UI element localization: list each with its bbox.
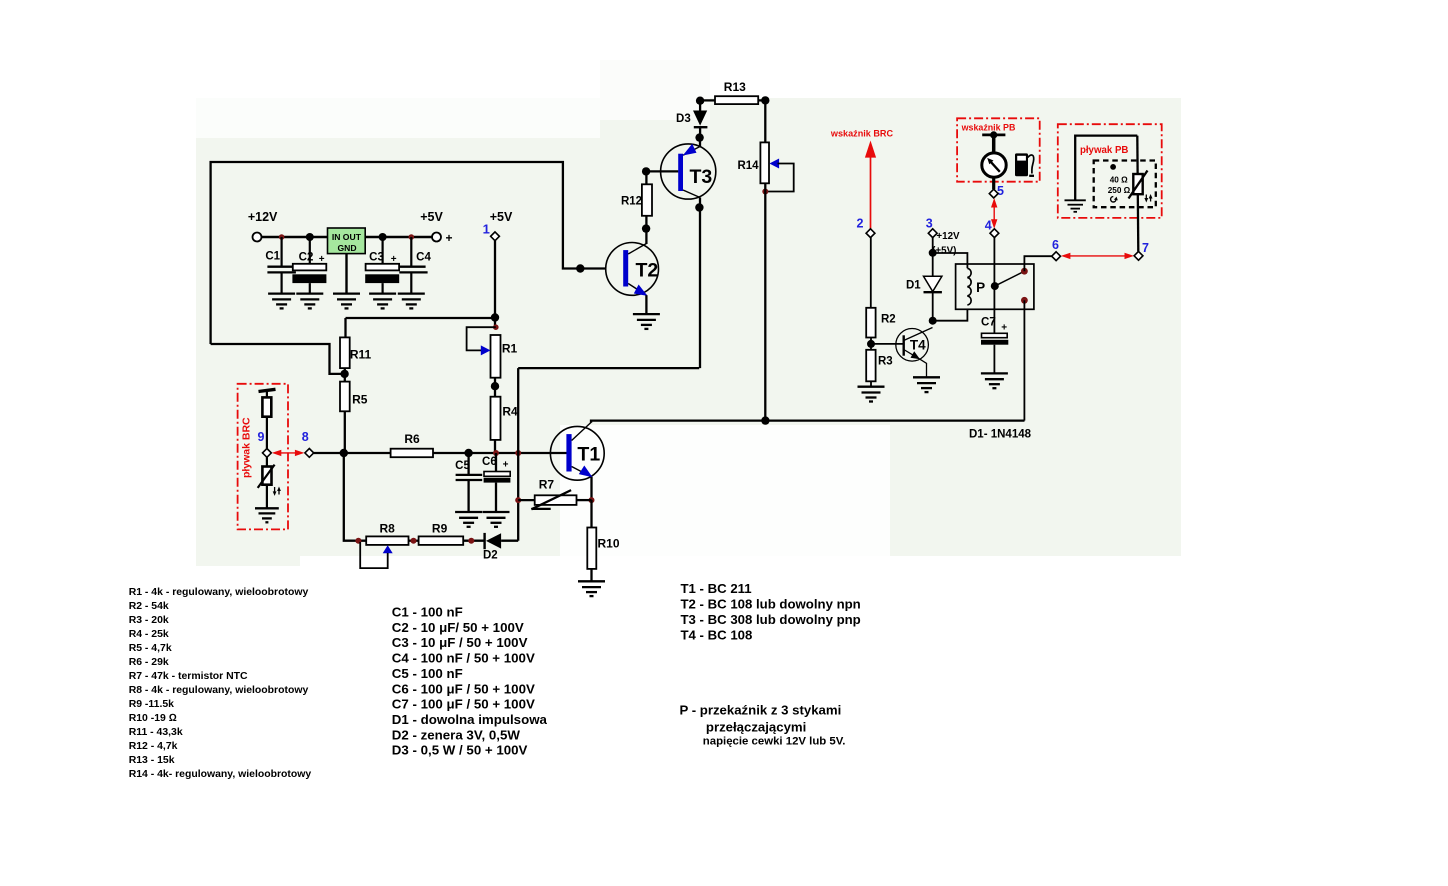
capacitor C5 bbox=[455, 453, 482, 512]
wire coil bottom return bbox=[933, 309, 968, 320]
red link arrow node5-node4 bbox=[991, 198, 997, 229]
node 8 diamond bbox=[305, 449, 314, 458]
svg-text:R5 - 4,7k: R5 - 4,7k bbox=[129, 643, 172, 654]
gauge top bar bbox=[982, 131, 1005, 152]
wire NC contact to node 6 bbox=[1024, 256, 1051, 271]
wire node3 down to D1 bbox=[932, 238, 934, 277]
svg-text:R11: R11 bbox=[350, 348, 372, 362]
sender rotation mark bbox=[1111, 197, 1116, 202]
wire R3 to ground bbox=[870, 381, 872, 386]
wire frame from regulator output loop to T2 base bbox=[211, 162, 606, 344]
wire R1 to R4 bbox=[494, 378, 496, 397]
svg-text:R7: R7 bbox=[539, 478, 555, 492]
svg-text:C1 - 100 nF: C1 - 100 nF bbox=[392, 605, 463, 620]
R1 wiper loop bbox=[467, 327, 496, 350]
svg-text:D2: D2 bbox=[483, 550, 498, 562]
wire to relay coil top bbox=[933, 253, 968, 268]
transistor T4 bbox=[896, 328, 933, 362]
junction (red) R9/D2 bbox=[468, 538, 474, 544]
svg-text:T2: T2 bbox=[636, 260, 659, 282]
junction R2/R3 bbox=[867, 340, 875, 348]
BRC sender level arrows bbox=[273, 487, 281, 496]
ground under C4 bbox=[398, 294, 425, 309]
svg-text:D3 - 0,5 W / 50 + 100V: D3 - 0,5 W / 50 + 100V bbox=[392, 743, 528, 758]
node 6 diamond bbox=[1052, 252, 1061, 261]
svg-text:R3: R3 bbox=[878, 356, 893, 368]
svg-text:C4: C4 bbox=[416, 252, 431, 264]
resistor R2 bbox=[866, 308, 895, 338]
junction T3 collector bbox=[695, 203, 703, 211]
junction (red) R1 top bbox=[493, 324, 499, 330]
svg-text:+5V: +5V bbox=[420, 210, 443, 224]
node 5 diamond bbox=[989, 189, 998, 198]
svg-text:4: 4 bbox=[985, 219, 992, 233]
resistor R5 bbox=[340, 382, 368, 412]
wire R11 to R5 bbox=[344, 368, 346, 382]
node 3 diamond bbox=[928, 229, 937, 238]
wire frame bottom segment to R11-R5 junction bbox=[211, 344, 342, 374]
capacitor C4 bbox=[399, 237, 431, 293]
wire R12 top to T3 base junction bbox=[645, 171, 647, 184]
ground under C7 bbox=[981, 373, 1008, 388]
svg-text:+12V: +12V bbox=[936, 231, 960, 242]
capacitor C6 (electrolytic) bbox=[482, 453, 510, 512]
svg-text:wskaźnik BRC: wskaźnik BRC bbox=[830, 129, 894, 139]
svg-text:R10: R10 bbox=[597, 537, 619, 551]
svg-text:przełączającymi: przełączającymi bbox=[706, 720, 806, 735]
R8 wiper arrow bbox=[383, 545, 393, 553]
svg-text:+5V: +5V bbox=[490, 210, 513, 224]
wire y344 stub into R11 top bbox=[344, 318, 346, 337]
svg-text:+: + bbox=[391, 254, 397, 265]
capacitor C2 (electrolytic) bbox=[292, 237, 326, 293]
value list R1-R14 bbox=[129, 587, 312, 780]
relay NO contact (red) bbox=[1021, 297, 1028, 304]
svg-text:C3: C3 bbox=[369, 252, 384, 264]
wire R8 to R9 bbox=[409, 540, 419, 542]
svg-text:R2: R2 bbox=[881, 314, 896, 326]
wire x518 to R7 bbox=[518, 499, 535, 501]
svg-text:R4 - 25k: R4 - 25k bbox=[129, 629, 169, 640]
svg-text:T4: T4 bbox=[910, 338, 926, 353]
svg-text:R1: R1 bbox=[502, 342, 518, 356]
sender variable resistor bbox=[1129, 171, 1148, 199]
power rail +12V to regulator bbox=[262, 236, 433, 238]
ground under regulator bbox=[333, 294, 360, 309]
node 4 diamond bbox=[990, 229, 999, 238]
sender level arrows bbox=[1144, 194, 1152, 203]
junction R14 bottom on rail bbox=[761, 416, 769, 424]
svg-text:R4: R4 bbox=[502, 405, 518, 419]
svg-text:C2: C2 bbox=[299, 252, 314, 264]
resistor R11 bbox=[340, 337, 371, 368]
relay P box bbox=[956, 264, 1034, 309]
wire T1 collector to relay rail y420.6 bbox=[591, 421, 1025, 423]
value list T1-T4 bbox=[681, 581, 861, 643]
svg-text:C5 - 100 nF: C5 - 100 nF bbox=[392, 666, 463, 681]
relay coil bbox=[967, 268, 971, 305]
ground under C5 bbox=[455, 512, 482, 527]
relay contact arm bbox=[995, 271, 1025, 286]
ground under C2 bbox=[296, 294, 323, 309]
svg-text:D1- 1N4148: D1- 1N4148 bbox=[969, 429, 1032, 441]
base rail y453 left segment bbox=[314, 452, 391, 454]
svg-text:R14 - 4k- regulowany, wieloobr: R14 - 4k- regulowany, wieloobrotowy bbox=[129, 769, 312, 780]
svg-text:C7 - 100 μF / 50 + 100V: C7 - 100 μF / 50 + 100V bbox=[392, 697, 535, 712]
regulator GND pin wire bbox=[345, 254, 347, 294]
ground in plywak BRC bbox=[255, 508, 279, 522]
node 2 diamond bbox=[866, 229, 875, 238]
wire T2 emitter to ground bbox=[645, 295, 647, 314]
svg-text:T1 - BC 211: T1 - BC 211 bbox=[681, 581, 752, 596]
ground under T2 bbox=[633, 314, 660, 329]
svg-text:R5: R5 bbox=[352, 393, 368, 407]
junction C5 tap on rail bbox=[464, 449, 472, 457]
wire sender to node 7 bbox=[1137, 136, 1138, 252]
junction common pole bbox=[991, 282, 999, 290]
svg-text:R6 - 29k: R6 - 29k bbox=[129, 657, 169, 668]
resistor R14 (trimmer) bbox=[737, 142, 769, 183]
svg-text:+: + bbox=[319, 254, 325, 265]
plywak PB red box bbox=[1058, 124, 1162, 218]
junction R13 right / R14 top bbox=[761, 96, 769, 104]
junction C2 tap bbox=[306, 233, 314, 241]
base rail y453 right segment to T1 bbox=[433, 452, 567, 454]
wire R9 to D2 bbox=[463, 540, 484, 542]
svg-text:R8 - 4k - regulowany, wieloobr: R8 - 4k - regulowany, wieloobrotowy bbox=[129, 685, 309, 696]
svg-text:3: 3 bbox=[926, 217, 933, 231]
capacitor C3 (electrolytic) bbox=[365, 237, 399, 293]
ground under C1 bbox=[268, 294, 295, 309]
svg-text:+: + bbox=[445, 231, 452, 245]
wire T3 emitter up to D3 bbox=[699, 138, 701, 147]
junction T2 base bbox=[576, 264, 584, 272]
junction node1/y318 bbox=[491, 313, 499, 321]
svg-text:T3: T3 bbox=[690, 166, 713, 188]
node 7 diamond bbox=[1134, 251, 1143, 260]
wire D1 to T4 collector junction bbox=[932, 292, 934, 321]
BRC float body bbox=[262, 397, 271, 416]
R1 wiper arrow bbox=[481, 345, 491, 355]
svg-text:C7: C7 bbox=[981, 317, 996, 329]
wire rail junction down to R8 row bbox=[344, 453, 366, 541]
junction (red) R14 bottom bbox=[762, 189, 768, 195]
svg-text:R13: R13 bbox=[724, 80, 746, 94]
svg-text:6: 6 bbox=[1052, 238, 1059, 252]
svg-text:C6: C6 bbox=[482, 456, 497, 468]
svg-text:R8: R8 bbox=[380, 522, 396, 536]
wskaznik PB red box bbox=[957, 118, 1040, 181]
svg-text:GND: GND bbox=[337, 243, 356, 253]
svg-text:C1: C1 bbox=[265, 251, 280, 263]
diode D1 bbox=[906, 276, 942, 292]
wire y368 to T3 collector column bbox=[518, 367, 699, 369]
wire T1 emitter down bbox=[590, 477, 592, 500]
junction T3 base bbox=[642, 167, 650, 175]
svg-text:R1 - 4k - regulowany, wieloobr: R1 - 4k - regulowany, wieloobrotowy bbox=[129, 587, 309, 598]
sender inner dashed box bbox=[1094, 161, 1156, 208]
BRC float top bar bbox=[259, 389, 276, 397]
svg-text:napięcie cewki 12V lub 5V.: napięcie cewki 12V lub 5V. bbox=[703, 736, 846, 748]
wire junction to T4 base bbox=[871, 343, 903, 345]
junction R13 left bbox=[696, 97, 704, 105]
R14 wiper loop bbox=[766, 164, 794, 192]
transistor T1 bbox=[550, 422, 604, 481]
diode D3 bbox=[676, 104, 707, 138]
thermistor R7 bbox=[531, 478, 591, 510]
wire T3 base bbox=[646, 170, 678, 172]
wire NO contact down to rail bbox=[1023, 300, 1025, 420]
wire BRC sender to ground bbox=[266, 485, 268, 508]
wire gauge to node 5 bbox=[992, 177, 995, 189]
junction (red) R8/R9 bbox=[411, 538, 417, 544]
svg-text:R2 - 54k: R2 - 54k bbox=[129, 601, 169, 612]
svg-text:+: + bbox=[1001, 323, 1007, 334]
R8 wiper loop bbox=[360, 542, 388, 568]
resistor R12 bbox=[621, 184, 652, 216]
plywak BRC red box bbox=[238, 384, 288, 530]
wire R2 to R3 bbox=[870, 338, 872, 350]
junction R12 bottom bbox=[642, 224, 650, 232]
svg-text:T4 - BC 108: T4 - BC 108 bbox=[681, 628, 753, 643]
junction D1/T4/coil bottom bbox=[929, 317, 937, 325]
svg-text:C3 - 10 μF / 50 + 100V: C3 - 10 μF / 50 + 100V bbox=[392, 635, 528, 650]
junction (red) R7 left on x518 bbox=[515, 497, 521, 503]
svg-text:C5: C5 bbox=[455, 460, 470, 472]
svg-text:+: + bbox=[503, 460, 509, 471]
svg-text:C4 - 100 nF / 50 + 100V: C4 - 100 nF / 50 + 100V bbox=[392, 651, 535, 666]
junction R1/R4 bbox=[491, 382, 499, 390]
transistor T2 bbox=[606, 243, 659, 296]
svg-text:T1: T1 bbox=[577, 444, 600, 466]
junction (red) emitter/R7/R10 bbox=[589, 497, 595, 503]
svg-text:IN OUT: IN OUT bbox=[332, 232, 362, 242]
+12V input terminal bbox=[253, 233, 262, 242]
svg-text:2: 2 bbox=[857, 217, 864, 231]
wire T2 collector to R12 bbox=[645, 216, 647, 244]
junction R11/R5 bbox=[340, 370, 348, 378]
junction (red) x518 on rail bbox=[515, 450, 521, 456]
svg-text:pływak PB: pływak PB bbox=[1080, 145, 1128, 156]
svg-text:40 Ω: 40 Ω bbox=[1110, 175, 1128, 184]
svg-text:R9 -11.5k: R9 -11.5k bbox=[129, 699, 174, 710]
ground under T4 bbox=[913, 377, 940, 392]
junction (red) R4 bottom on rail bbox=[493, 450, 499, 456]
wire T4 emitter to ground bbox=[919, 359, 926, 377]
svg-text:R10 -19 Ω: R10 -19 Ω bbox=[129, 713, 177, 724]
resistor R4 bbox=[491, 397, 518, 440]
resistor R6 bbox=[391, 432, 433, 457]
svg-text:P: P bbox=[976, 280, 985, 295]
wire R5 down to rail junction bbox=[344, 411, 346, 453]
ground under C3 bbox=[369, 294, 396, 309]
svg-text:R9: R9 bbox=[432, 522, 448, 536]
wire T3 collector down bbox=[699, 198, 701, 369]
resistor R9 bbox=[419, 522, 464, 545]
svg-text:D1 - dowolna impulsowa: D1 - dowolna impulsowa bbox=[392, 712, 548, 727]
wire junction down to R10 bbox=[590, 500, 592, 527]
svg-text:R13 - 15k: R13 - 15k bbox=[129, 755, 175, 766]
svg-text:C2 - 10 μF/ 50 + 100V: C2 - 10 μF/ 50 + 100V bbox=[392, 620, 524, 635]
svg-text:R7 - 47k - termistor NTC: R7 - 47k - termistor NTC bbox=[129, 671, 248, 682]
svg-text:wskaźnik PB: wskaźnik PB bbox=[961, 123, 1016, 133]
svg-text:8: 8 bbox=[302, 430, 309, 444]
svg-text:R14: R14 bbox=[737, 160, 759, 172]
node 9 diamond bbox=[263, 449, 272, 458]
junction C3 tap bbox=[379, 233, 387, 241]
junction coil top tap bbox=[929, 249, 937, 257]
resistor R8 (trimmer) bbox=[366, 522, 408, 545]
wskaznik BRC red arrow bbox=[865, 141, 876, 229]
wire node2 to R2 bbox=[870, 238, 872, 308]
wire R14 bottom to rail bbox=[764, 183, 766, 420]
svg-text:R12: R12 bbox=[621, 196, 642, 208]
svg-text:7: 7 bbox=[1142, 241, 1149, 255]
resistor R13 bbox=[700, 80, 765, 104]
svg-text:9: 9 bbox=[258, 430, 265, 444]
relay NC contact (red) bbox=[1021, 268, 1028, 275]
vertical net x518 from y368 to D2 bbox=[517, 368, 519, 541]
red link arrow node9-node8 bbox=[272, 450, 305, 456]
resistor R1 (trimmer) bbox=[491, 335, 518, 378]
ground under R10 bbox=[578, 581, 605, 596]
junction (red) C1 tap bbox=[279, 234, 285, 240]
svg-text:1: 1 bbox=[483, 222, 490, 237]
wire node4 common pole bbox=[993, 238, 995, 334]
gauge dial bbox=[982, 153, 1006, 177]
junction R5 column on rail bbox=[340, 449, 348, 457]
wire R10 to ground bbox=[590, 569, 592, 581]
junction (red) R8 left bbox=[355, 538, 361, 544]
red link arrow node6-node7 bbox=[1061, 253, 1134, 259]
svg-text:T3 - BC 308 lub dowolny pnp: T3 - BC 308 lub dowolny pnp bbox=[681, 612, 861, 627]
capacitor C1 bbox=[265, 237, 296, 293]
svg-text:250 Ω: 250 Ω bbox=[1108, 186, 1131, 195]
svg-text:R12 - 4,7k: R12 - 4,7k bbox=[129, 741, 178, 752]
value list C1-C7 D1-D3 bbox=[392, 605, 548, 758]
fuel pump icon bbox=[1015, 153, 1034, 176]
svg-text:D3: D3 bbox=[676, 113, 691, 125]
svg-text:5: 5 bbox=[997, 184, 1004, 198]
svg-text:P - przekaźnik z 3 stykami: P - przekaźnik z 3 stykami bbox=[680, 703, 842, 718]
+5V output terminal bbox=[432, 233, 441, 242]
resistor R3 bbox=[866, 350, 892, 382]
wire y318 from R11 column to node1 column bbox=[346, 317, 496, 319]
junction D3 cathode bbox=[695, 133, 703, 141]
svg-text:R3 - 20k: R3 - 20k bbox=[129, 615, 169, 626]
node 1 diamond bbox=[491, 232, 500, 241]
svg-text:C6 - 100 μF / 50 + 100V: C6 - 100 μF / 50 + 100V bbox=[392, 681, 535, 696]
plywak PB wiring loop bbox=[1075, 136, 1137, 201]
ground under R3 bbox=[858, 387, 885, 402]
junction (red) C4 tap bbox=[409, 234, 415, 240]
zener diode D2 bbox=[483, 533, 518, 562]
transistor T3 (pnp) bbox=[661, 144, 716, 199]
svg-text:T2 - BC 108 lub dowolny npn: T2 - BC 108 lub dowolny npn bbox=[681, 596, 861, 611]
svg-text:D2 - zenera 3V, 0,5W: D2 - zenera 3V, 0,5W bbox=[392, 727, 521, 742]
sender terminal dot bbox=[1110, 164, 1116, 170]
svg-text:R11 - 43,3k: R11 - 43,3k bbox=[129, 727, 183, 738]
ground in plywak PB bbox=[1065, 200, 1086, 212]
svg-text:+12V: +12V bbox=[248, 210, 278, 224]
wire R4 to base rail bbox=[494, 440, 496, 453]
BRC sender variable resistor bbox=[258, 457, 275, 488]
wire R13 to R14 bbox=[764, 100, 766, 142]
voltage regulator U1 (IN OUT GND) bbox=[328, 228, 366, 254]
capacitor C7 (electrolytic) bbox=[981, 317, 1008, 374]
ground under C6 bbox=[483, 512, 510, 527]
svg-text:pływak BRC: pływak BRC bbox=[241, 417, 253, 478]
wire float to node 9 bbox=[266, 417, 268, 449]
wire node1 down to junction bbox=[494, 241, 496, 327]
resistor R10 bbox=[587, 528, 620, 569]
svg-text:D1: D1 bbox=[906, 280, 921, 292]
svg-text:R6: R6 bbox=[404, 432, 420, 446]
R14 wiper arrow bbox=[769, 159, 779, 169]
